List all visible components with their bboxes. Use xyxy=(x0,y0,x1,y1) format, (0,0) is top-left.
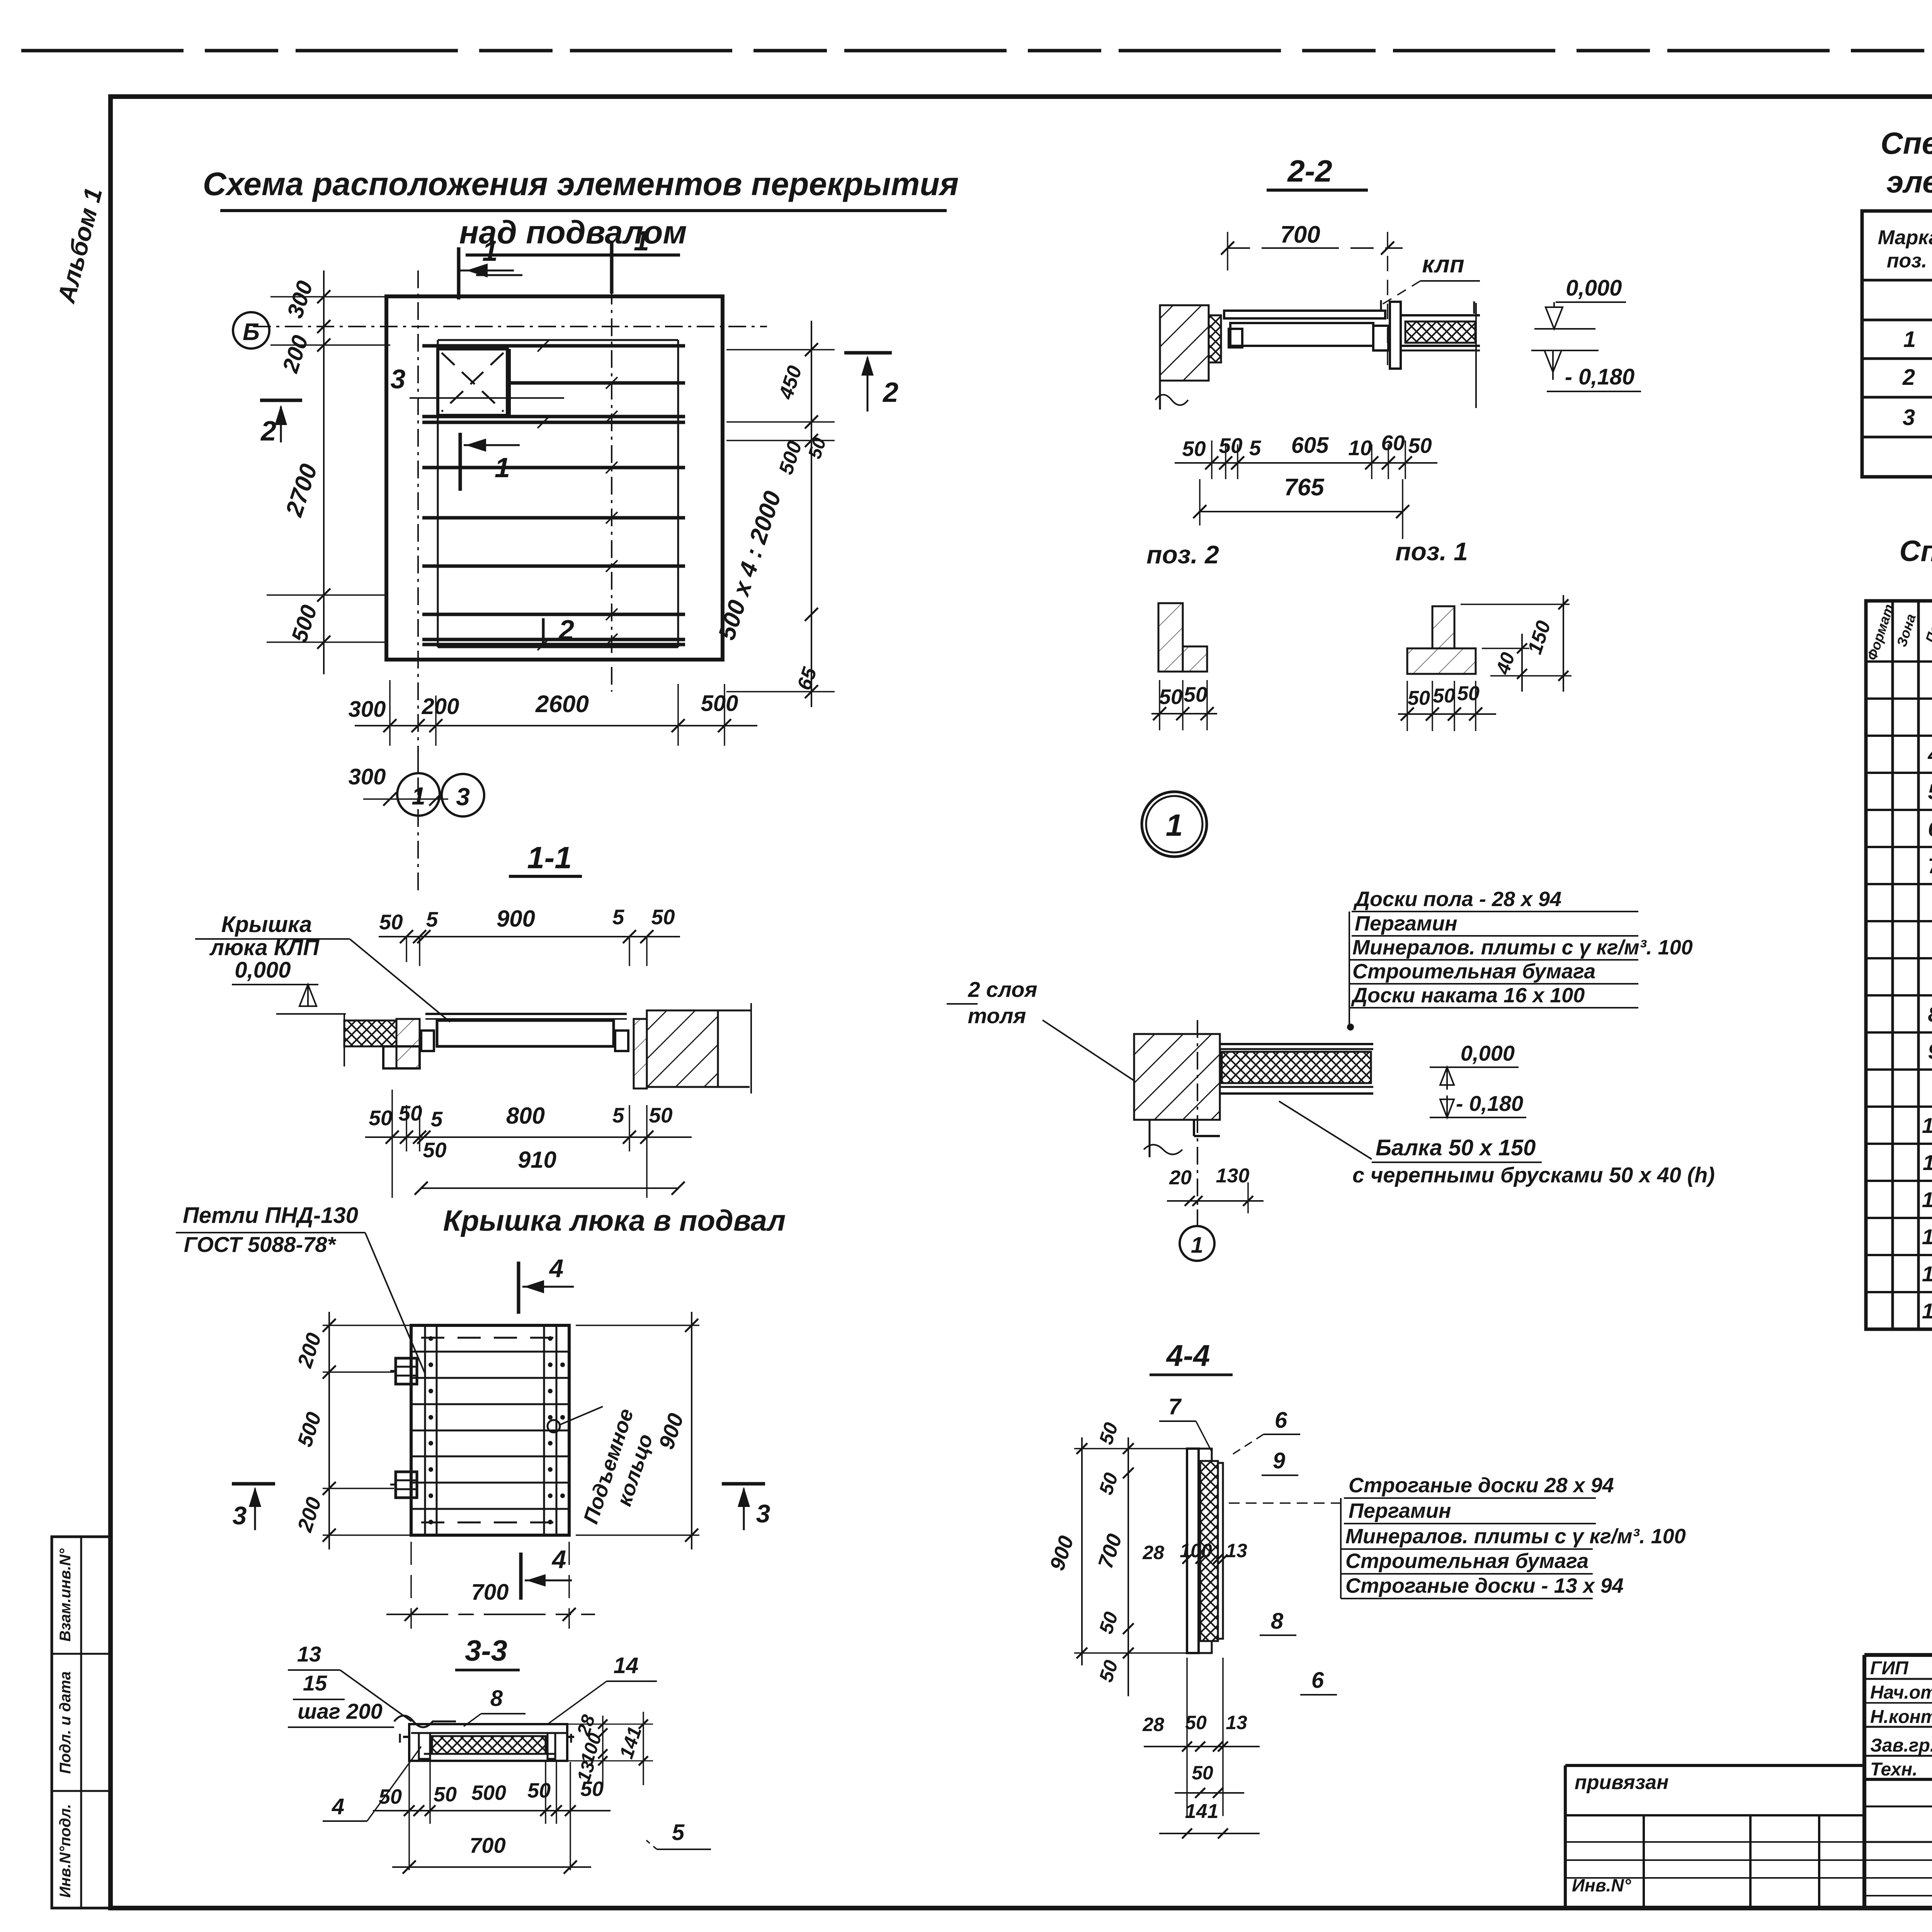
svg-text:Доски пола - 28 х 94: Доски пола - 28 х 94 xyxy=(1353,888,1561,911)
svg-text:50: 50 xyxy=(1433,685,1455,707)
svg-text:300: 300 xyxy=(349,697,386,722)
beam xyxy=(422,466,685,469)
svg-text:13: 13 xyxy=(297,1642,321,1666)
svg-text:300: 300 xyxy=(349,764,386,789)
svg-text:6: 6 xyxy=(1928,816,1932,841)
node: vertical axis dash-dot xyxy=(1197,1020,1198,1209)
svg-text:Спецификация к схеме расположе: Спецификация к схеме расположения xyxy=(1881,126,1932,160)
svg-text:1: 1 xyxy=(412,782,425,810)
beam partial right of hatch box xyxy=(507,381,685,385)
svg-text:- 0,180: - 0,180 xyxy=(1456,1091,1523,1116)
hinge leader xyxy=(365,1233,425,1374)
axis B circle xyxy=(233,312,269,349)
section flag 1 top-right xyxy=(610,243,614,294)
svg-text:50: 50 xyxy=(1185,1712,1207,1733)
1-1: right masonry wall xyxy=(647,1010,718,1087)
svg-text:толя: толя xyxy=(968,1003,1026,1028)
node: insulation band xyxy=(1222,1052,1371,1083)
section flag 4 bottom xyxy=(519,1553,523,1600)
svg-text:141: 141 xyxy=(1185,1800,1219,1823)
section flag 1 top-left xyxy=(457,247,461,299)
svg-text:50: 50 xyxy=(1184,682,1207,706)
4-4: left dim chain xyxy=(1128,1437,1129,1696)
3-3 squiggle leader xyxy=(394,1716,456,1727)
svg-text:5: 5 xyxy=(1928,779,1932,804)
spec table 1 grid xyxy=(1862,211,1932,477)
svg-text:ГИП: ГИП xyxy=(1870,1658,1909,1679)
svg-text:50: 50 xyxy=(1408,434,1432,457)
svg-text:Зав.гр.: Зав.гр. xyxy=(1870,1735,1932,1756)
svg-text:4: 4 xyxy=(1927,742,1932,767)
lid plan dashed hinge bars xyxy=(421,1337,560,1339)
section flag 2 bottom (inside plan) xyxy=(542,618,545,646)
svg-text:50: 50 xyxy=(398,1101,422,1125)
section flags 3 (left and right) xyxy=(232,1482,275,1486)
svg-text:5: 5 xyxy=(426,907,439,931)
lid plan outer rect xyxy=(411,1325,569,1535)
3-3 left end block xyxy=(419,1733,430,1759)
small cross ticks on axis2 at beams xyxy=(606,377,617,389)
svg-text:10: 10 xyxy=(1348,436,1372,460)
svg-text:50: 50 xyxy=(1192,1762,1213,1784)
poz.1 dims 50/50/50 xyxy=(1398,713,1496,715)
lid plan hinge 1 xyxy=(396,1358,417,1384)
svg-text:5: 5 xyxy=(612,905,625,929)
2-2: right frame post xyxy=(1390,302,1401,369)
svg-text:с черепными брусками 50 х 40 (: с черепными брусками 50 х 40 (h) xyxy=(1352,1163,1715,1187)
svg-text:50: 50 xyxy=(1182,437,1206,461)
svg-text:люка КЛП: люка КЛП xyxy=(209,935,320,960)
svg-text:Марка: Марка xyxy=(1878,226,1932,249)
svg-text:10: 10 xyxy=(1922,1113,1932,1138)
svg-text:28: 28 xyxy=(1142,1714,1164,1735)
svg-text:Строганые доски 28 х 94: Строганые доски 28 х 94 xyxy=(1349,1474,1614,1497)
2-2: left wall (masonry, hatched) xyxy=(1160,305,1209,381)
svg-text:11: 11 xyxy=(1923,1150,1932,1175)
1-1: left insulation block xyxy=(344,1020,396,1046)
plan right dimension chain xyxy=(811,321,812,707)
poz.2 L-shape wood section xyxy=(1158,603,1183,672)
svg-text:Схема расположения элементов п: Схема расположения элементов перекрытия xyxy=(203,166,959,202)
2-2: wall break squiggle xyxy=(1155,395,1188,405)
4-4: bottom tab xyxy=(1199,1641,1212,1653)
axis B horizontal dash-dot xyxy=(253,326,767,327)
2-2: lid right end block xyxy=(1373,326,1388,350)
svg-text:2: 2 xyxy=(1902,365,1915,390)
lid plan right dim 900 xyxy=(691,1312,692,1549)
4-4: right board 13 xyxy=(1218,1463,1223,1639)
svg-text:4-4: 4-4 xyxy=(1166,1338,1210,1372)
node: wall block hatched xyxy=(1134,1034,1220,1120)
svg-text:28: 28 xyxy=(1142,1542,1164,1563)
svg-text:6: 6 xyxy=(1311,1668,1324,1693)
lid plan nail dots xyxy=(429,1336,433,1341)
svg-text:14: 14 xyxy=(614,1653,639,1678)
node: detail circle 1 small xyxy=(1197,1209,1198,1226)
svg-text:5: 5 xyxy=(672,1820,685,1845)
svg-text:Н.контр.: Н.контр. xyxy=(1870,1707,1932,1727)
svg-text:0,000: 0,000 xyxy=(1566,276,1622,301)
svg-text:13: 13 xyxy=(1922,1225,1932,1249)
svg-text:привязан: привязан xyxy=(1575,1771,1669,1794)
svg-text:700: 700 xyxy=(471,1580,509,1605)
svg-text:Крышка: Крышка xyxy=(221,912,312,937)
svg-text:12: 12 xyxy=(1922,1187,1932,1212)
svg-text:2600: 2600 xyxy=(535,691,589,718)
lid plan boards xyxy=(411,1351,569,1353)
joist beams (double lines) in plan xyxy=(422,344,685,348)
grid circles 1 and 3 at plan bottom xyxy=(417,746,419,774)
svg-text:60: 60 xyxy=(1381,431,1405,455)
svg-text:- 0,180: - 0,180 xyxy=(1565,364,1635,389)
svg-text:1: 1 xyxy=(482,236,498,267)
svg-text:1-1: 1-1 xyxy=(527,840,572,875)
poz.2 dims 50/50 xyxy=(1151,713,1217,714)
detail circle 1 (big, double) xyxy=(1142,792,1207,857)
beam xyxy=(422,565,685,568)
svg-text:5: 5 xyxy=(431,1107,443,1131)
svg-text:Инв.N°: Инв.N° xyxy=(1572,1875,1631,1895)
node detail: leader stem xyxy=(1349,912,1350,1024)
svg-text:Нач.отд.: Нач.отд. xyxy=(1870,1682,1932,1703)
svg-text:50: 50 xyxy=(379,910,403,934)
sheet top edge dashed line xyxy=(21,49,1932,53)
lifting ring xyxy=(548,1420,560,1432)
svg-text:4: 4 xyxy=(551,1545,566,1573)
beam pair below hatch box xyxy=(422,415,685,418)
svg-text:50: 50 xyxy=(1408,687,1430,709)
svg-text:500: 500 xyxy=(471,1781,506,1804)
svg-text:Спецификация элементов на крыш: Спецификация элементов на крышку люка- К… xyxy=(1899,535,1932,568)
2-2: lid body xyxy=(1230,323,1373,346)
3-3 hinge pins xyxy=(403,1736,409,1738)
svg-text:700: 700 xyxy=(469,1833,505,1857)
node: corner step xyxy=(1193,1120,1195,1136)
2-2: elevation -0,180 xyxy=(1531,350,1599,351)
svg-text:4: 4 xyxy=(332,1794,344,1819)
left stamp column box xyxy=(52,1537,111,1908)
svg-text:3: 3 xyxy=(756,1499,770,1528)
plan left dimension chain xyxy=(323,270,325,674)
svg-text:20: 20 xyxy=(1169,1167,1192,1189)
svg-text:6: 6 xyxy=(1275,1408,1287,1433)
poz.1 right dims 40 / 150 xyxy=(1482,648,1529,649)
svg-text:700: 700 xyxy=(1280,221,1320,248)
svg-text:900: 900 xyxy=(497,906,535,932)
svg-text:Техн.: Техн. xyxy=(1870,1759,1918,1780)
svg-text:Б: Б xyxy=(243,319,260,345)
svg-text:13: 13 xyxy=(1226,1712,1247,1733)
svg-text:50: 50 xyxy=(1457,682,1480,705)
svg-text:130: 130 xyxy=(1216,1165,1250,1187)
svg-text:500: 500 xyxy=(701,691,738,716)
svg-text:2: 2 xyxy=(882,377,898,408)
lid plan left dims 200/500/200 xyxy=(328,1312,330,1549)
svg-text:Балка 50 х 150: Балка 50 х 150 xyxy=(1376,1135,1536,1160)
svg-text:Крышка люка в подвал: Крышка люка в подвал xyxy=(443,1204,786,1237)
section flag 1 inside plan xyxy=(459,433,462,491)
svg-text:Строительная бумага: Строительная бумага xyxy=(1345,1549,1588,1573)
svg-text:элементов перекрытия над подва: элементов перекрытия над подвалом xyxy=(1886,165,1932,199)
1-1: lid top line xyxy=(425,1013,627,1015)
svg-text:50: 50 xyxy=(369,1106,393,1130)
2-2: lid top board xyxy=(1224,311,1385,318)
svg-text:50: 50 xyxy=(649,1103,673,1127)
svg-text:Минералов. плиты с γ кг/м³. 10: Минералов. плиты с γ кг/м³. 100 xyxy=(1352,936,1693,959)
svg-text:910: 910 xyxy=(518,1147,556,1173)
svg-text:50: 50 xyxy=(423,1138,447,1162)
svg-text:765: 765 xyxy=(1284,474,1325,501)
axis 2 vertical dash-dot xyxy=(611,255,612,692)
svg-text:9: 9 xyxy=(1928,1039,1932,1063)
svg-text:Пергамин: Пергамин xyxy=(1349,1499,1451,1522)
plan bottom dimension chain xyxy=(355,725,757,726)
svg-text:100: 100 xyxy=(1180,1540,1212,1561)
svg-text:50: 50 xyxy=(651,905,675,929)
svg-text:клп: клп xyxy=(1422,251,1464,278)
svg-text:50: 50 xyxy=(434,1783,457,1806)
svg-text:Минералов. плиты с γ кг/м³. 10: Минералов. плиты с γ кг/м³. 100 xyxy=(1345,1525,1686,1548)
3-3 section drawing xyxy=(409,1724,567,1761)
axis 1-3 vertical dash-dot through plan xyxy=(417,270,419,893)
svg-text:шаг 200: шаг 200 xyxy=(298,1699,383,1723)
svg-text:1: 1 xyxy=(1903,327,1916,352)
3-3 right end block xyxy=(548,1733,555,1759)
4-4: top tab xyxy=(1199,1449,1212,1461)
section flag 4 top xyxy=(517,1262,520,1314)
section flag 2 left xyxy=(260,399,302,402)
beam xyxy=(422,613,685,616)
svg-text:Инв.N°подл.: Инв.N°подл. xyxy=(57,1804,74,1898)
joist zone side rails xyxy=(437,340,439,647)
section flag 2 right xyxy=(844,351,892,355)
svg-text:1: 1 xyxy=(1166,808,1183,842)
svg-text:15: 15 xyxy=(303,1671,327,1695)
svg-text:Строганые доски - 13 х 94: Строганые доски - 13 х 94 xyxy=(1345,1574,1624,1597)
plan: outer wall rectangle xyxy=(386,296,723,660)
svg-text:2-2: 2-2 xyxy=(1287,154,1332,188)
svg-text:50: 50 xyxy=(1159,685,1183,709)
svg-text:14: 14 xyxy=(1922,1262,1932,1286)
2-2: packing strip (v-hatch) xyxy=(1209,315,1221,362)
3-3 bottom board xyxy=(424,1753,555,1755)
1-1: left notch block xyxy=(421,1031,434,1051)
svg-text:0,000: 0,000 xyxy=(1461,1041,1515,1065)
svg-text:9: 9 xyxy=(1273,1448,1285,1473)
3-3 insulation core xyxy=(432,1736,546,1754)
signature rows xyxy=(1864,1678,1932,1680)
svg-text:5: 5 xyxy=(1249,436,1262,460)
svg-text:0,000: 0,000 xyxy=(235,957,291,983)
svg-text:1: 1 xyxy=(1191,1233,1203,1258)
2-2: lid left end block xyxy=(1229,329,1242,347)
2-2: lower dim chain 50/50/5/605/10/60/50 xyxy=(1175,462,1437,464)
svg-text:3: 3 xyxy=(391,364,406,394)
svg-text:2: 2 xyxy=(260,416,276,447)
node: floor top board xyxy=(1220,1043,1373,1045)
svg-text:13: 13 xyxy=(1226,1540,1247,1561)
4-4: overall 900 dim xyxy=(1081,1437,1083,1665)
4-4: left board 28 (vertical) xyxy=(1187,1449,1199,1653)
svg-text:200: 200 xyxy=(422,694,459,719)
2-2: floor panel right (insulation) xyxy=(1401,314,1480,316)
svg-text:Строительная бумага: Строительная бумага xyxy=(1352,960,1595,983)
svg-text:3: 3 xyxy=(456,783,470,811)
bottom beam pair xyxy=(422,638,685,641)
svg-text:Доски наката 16 х 100: Доски наката 16 х 100 xyxy=(1351,984,1585,1007)
svg-text:15: 15 xyxy=(1922,1299,1932,1323)
svg-text:7: 7 xyxy=(1168,1394,1182,1419)
privyazan mini table xyxy=(1565,1764,1864,1767)
lid plan hinge 2 xyxy=(396,1472,417,1498)
svg-text:5: 5 xyxy=(612,1103,625,1127)
beam xyxy=(422,516,685,520)
svg-text:7: 7 xyxy=(1928,854,1932,878)
svg-text:4: 4 xyxy=(549,1254,564,1282)
svg-text:3: 3 xyxy=(233,1501,247,1530)
svg-text:поз.: поз. xyxy=(1887,250,1927,272)
1-1: lid body xyxy=(437,1020,614,1046)
1-1: right notch block xyxy=(615,1031,628,1051)
svg-text:8: 8 xyxy=(490,1686,503,1711)
svg-text:605: 605 xyxy=(1291,433,1329,458)
svg-text:8: 8 xyxy=(1928,1002,1932,1026)
1-1: left wood posts xyxy=(396,1019,420,1068)
svg-text:Взам.инв.N°: Взам.инв.N° xyxy=(57,1548,74,1642)
1-1: right wood strip xyxy=(634,1019,647,1088)
svg-text:поз. 2: поз. 2 xyxy=(1146,540,1219,569)
svg-text:Петли ПНД-130: Петли ПНД-130 xyxy=(183,1203,358,1228)
1-1: leader to lid xyxy=(350,939,450,1022)
svg-text:8: 8 xyxy=(1271,1609,1284,1634)
title block outer xyxy=(1864,1653,1932,1657)
svg-text:50: 50 xyxy=(379,1785,402,1808)
svg-text:Подл. и дата: Подл. и дата xyxy=(57,1671,74,1774)
1-1: lower dim chain 50/50/5/800/5/50 xyxy=(365,1136,692,1138)
svg-text:50: 50 xyxy=(1219,434,1243,457)
svg-text:ГОСТ 5088-78*: ГОСТ 5088-78* xyxy=(184,1232,337,1257)
lid plan vertical cleats xyxy=(424,1325,426,1535)
svg-text:50: 50 xyxy=(527,1779,551,1802)
svg-text:поз. 1: поз. 1 xyxy=(1395,537,1468,566)
svg-text:1: 1 xyxy=(634,226,649,257)
svg-text:3: 3 xyxy=(1903,405,1915,430)
spec table 2 grid xyxy=(1866,601,1932,1329)
poz.1 T-shape wood section xyxy=(1432,606,1454,674)
4-4: insulation strip xyxy=(1200,1461,1218,1641)
hatch opening box with X (luke) xyxy=(438,349,507,415)
svg-text:Пергамин: Пергамин xyxy=(1355,912,1458,935)
svg-text:2 слоя: 2 слоя xyxy=(968,977,1037,1002)
svg-text:800: 800 xyxy=(506,1103,545,1129)
svg-text:3-3: 3-3 xyxy=(465,1634,507,1667)
